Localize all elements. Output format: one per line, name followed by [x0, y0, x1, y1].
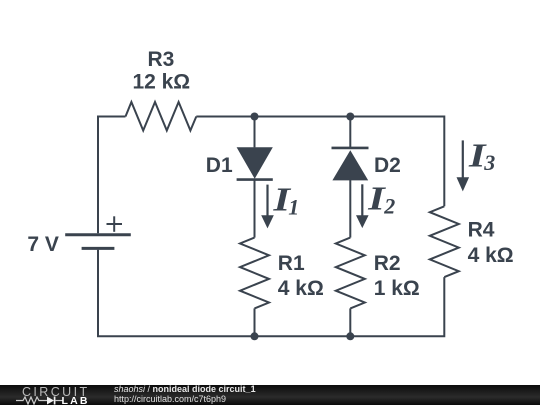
wire D2 anode to R2: [349, 180, 351, 238]
label I3: [468, 137, 496, 175]
current arrow I3: [457, 140, 470, 191]
wire D1 cathode to R1: [254, 180, 256, 238]
battery V1 7 V: [65, 235, 131, 249]
svg-text:R1: R1: [278, 252, 305, 275]
diode D2: [332, 148, 369, 181]
node bottom junction R1: [251, 332, 259, 340]
wire R1 to bottom: [254, 308, 256, 336]
svg-text:1 kΩ: 1 kΩ: [374, 277, 420, 300]
diode D1: [237, 147, 273, 179]
svg-text:12 kΩ: 12 kΩ: [132, 70, 190, 93]
credit line 2: [114, 394, 226, 404]
wire D2 branch top: [349, 117, 351, 148]
svg-text:R4: R4: [468, 218, 495, 241]
node top junction D2: [346, 113, 354, 121]
wire D1 branch top: [254, 117, 256, 148]
resistor R2 1 k: [336, 238, 365, 309]
wire R2 to bottom: [349, 308, 351, 336]
svg-text:4 kΩ: 4 kΩ: [278, 277, 324, 300]
label I1: [272, 182, 299, 220]
wire top wire from R3 to right rail: [196, 117, 444, 207]
resistor R4 4 k: [430, 206, 459, 277]
svg-text:7 V: 7 V: [27, 233, 59, 256]
wire left rail upper + top wire to R3: [98, 117, 126, 234]
CircuitLab logo squiggle (resistor + diode): [16, 396, 63, 405]
node bottom junction R2: [346, 332, 354, 340]
svg-text:2: 2: [383, 193, 395, 218]
svg-text:1: 1: [288, 194, 299, 219]
svg-text:4 kΩ: 4 kΩ: [468, 244, 514, 267]
plus sign: [107, 216, 123, 232]
label I2: [367, 181, 395, 219]
svg-text:D2: D2: [374, 154, 401, 177]
current arrow I2: [356, 184, 369, 228]
resistor R3 12 k: [126, 102, 197, 131]
CircuitLab logo text CIRCUIT: [22, 385, 90, 399]
svg-text:R3: R3: [147, 48, 174, 71]
svg-text:3: 3: [483, 150, 495, 175]
node top junction D1: [251, 113, 259, 121]
footer bar: [0, 385, 540, 405]
wire right rail lower + bottom wire + left rail lower: [98, 250, 444, 336]
credit line 1: [114, 384, 256, 394]
svg-text:D1: D1: [206, 154, 233, 177]
resistor R1 4 k: [240, 238, 269, 309]
CircuitLab logo text LAB: [62, 395, 90, 405]
svg-text:R2: R2: [374, 252, 401, 275]
current arrow I1: [261, 185, 274, 229]
